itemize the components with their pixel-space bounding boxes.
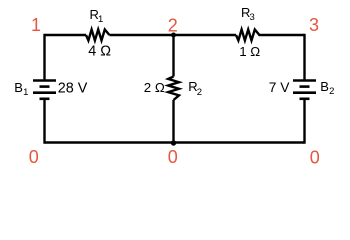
wire node 2 to R3: [174, 34, 237, 36]
wire middle vertical bottom (R2 to node 0): [172, 100, 174, 143]
svg-text:1: 1: [98, 14, 103, 25]
wire left vertical top (node 1 down to B1): [43, 34, 45, 80]
battery B2 plate long bottom: [293, 91, 316, 94]
svg-text:2: 2: [197, 87, 202, 98]
battery B1 plate long bottom: [33, 91, 56, 94]
svg-text:0: 0: [168, 147, 178, 167]
wire top-left (node1 to R1): [45, 34, 87, 36]
resistor R1 zigzag: [86, 30, 109, 41]
svg-text:7 V: 7 V: [269, 80, 291, 95]
svg-text:B: B: [320, 79, 329, 94]
battery B2 plate short bottom: [300, 98, 310, 101]
wire middle vertical top (node 2 to R2): [172, 35, 174, 77]
wire R1 to node 2: [109, 34, 173, 36]
junction node 2 dot: [171, 33, 176, 38]
svg-text:2: 2: [168, 15, 178, 35]
wire right vertical bottom (B2 to node 0): [303, 99, 305, 144]
svg-text:1 Ω: 1 Ω: [239, 44, 260, 59]
battery B2 plate long top: [293, 79, 316, 82]
wire right vertical top (node 3 to B2): [303, 34, 305, 80]
svg-text:28 V: 28 V: [58, 80, 88, 96]
svg-text:2: 2: [329, 86, 334, 97]
wire bottom: [45, 141, 305, 143]
svg-text:1: 1: [31, 15, 41, 35]
resistor R3 zigzag: [236, 30, 262, 41]
resistor R2 zigzag: [168, 77, 179, 101]
battery B1 plate short bottom: [40, 98, 50, 101]
svg-text:2 Ω: 2 Ω: [144, 80, 165, 95]
svg-text:4 Ω: 4 Ω: [88, 44, 111, 60]
svg-text:B: B: [14, 80, 23, 95]
svg-text:3: 3: [250, 12, 255, 23]
wire left vertical bottom (B1 to node 0): [43, 99, 45, 144]
battery B1 plate short: [40, 85, 50, 88]
svg-text:1: 1: [23, 87, 28, 98]
wire R3 to node 3: [262, 34, 305, 36]
battery B1 plate long top: [33, 79, 56, 82]
svg-text:0: 0: [310, 148, 320, 168]
junction bottom middle dot: [171, 140, 176, 145]
svg-text:3: 3: [309, 15, 319, 35]
battery B2 plate short: [300, 85, 310, 88]
svg-text:0: 0: [29, 147, 39, 167]
